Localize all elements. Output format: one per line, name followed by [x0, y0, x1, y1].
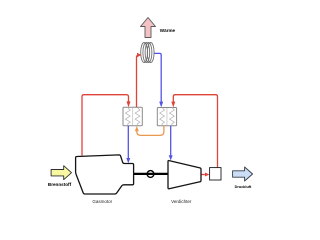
svg-text:Druckluft: Druckluft: [235, 185, 252, 189]
svg-text:Verdichter: Verdichter: [171, 199, 192, 204]
svg-text:Wärme: Wärme: [160, 28, 176, 33]
svg-text:Gasmotor: Gasmotor: [92, 199, 112, 204]
svg-text:Brennstoff: Brennstoff: [48, 182, 72, 187]
